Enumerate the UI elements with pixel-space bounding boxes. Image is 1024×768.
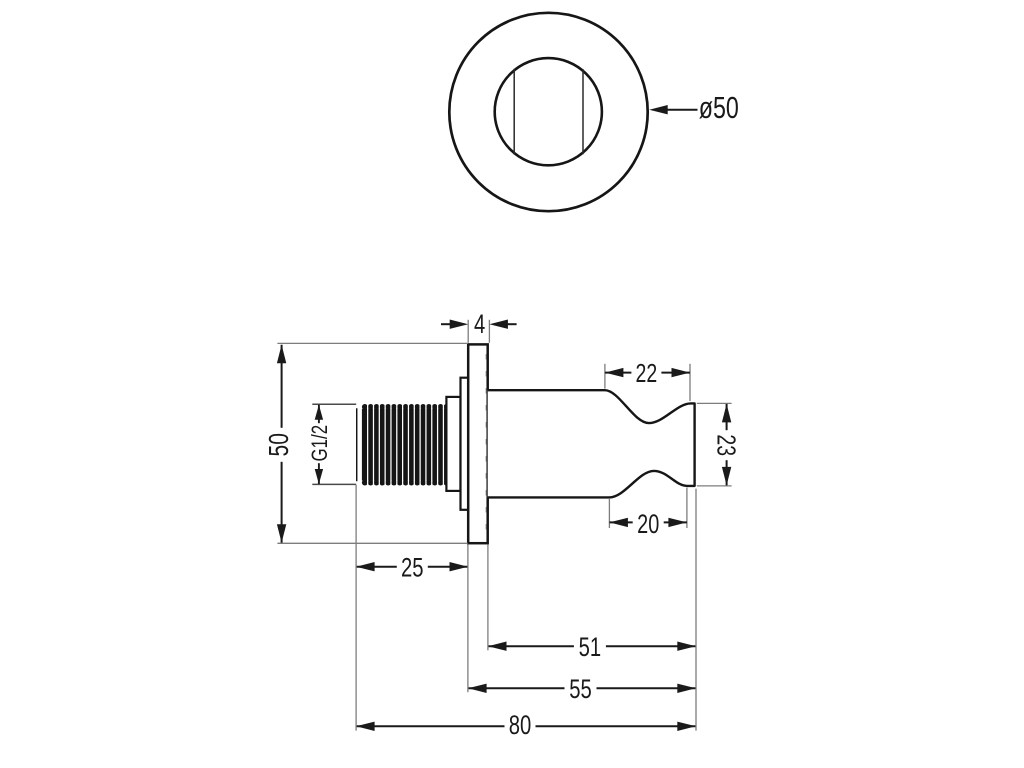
dimension G1/2 (thread size) xyxy=(308,404,356,484)
extension line: flange left face (for 25 & 55) xyxy=(467,545,469,693)
svg-text:20: 20 xyxy=(637,509,659,538)
dimension 25 (thread length) xyxy=(356,553,468,584)
svg-text:51: 51 xyxy=(579,632,602,663)
shoulder (thread runout cylinder) xyxy=(446,397,460,491)
svg-text:22: 22 xyxy=(636,358,658,387)
hidden edge (dashed) inside flange xyxy=(485,354,487,538)
dimension 55 (body + flange length) xyxy=(468,674,696,705)
holder body with concave neck and end cone xyxy=(488,390,695,497)
svg-text:4: 4 xyxy=(474,309,485,340)
extension line: thread start (left, for 25 & 80) xyxy=(355,485,357,731)
dimension 80 (overall length) xyxy=(356,710,696,741)
dimension 22 (cone top width) xyxy=(605,358,690,401)
svg-text:G1/2: G1/2 xyxy=(308,425,333,462)
extension line: flange right face (for 51) xyxy=(487,545,489,651)
svg-text:80: 80 xyxy=(509,710,532,741)
extension line: part right end (for 51/55/80) xyxy=(695,489,697,731)
dimension 20 (cone bottom width) xyxy=(609,488,687,539)
front view: right silhouette line of holder xyxy=(582,69,584,154)
front view: outer ring (escutcheon edge) xyxy=(449,13,647,211)
leader line for diameter 50 xyxy=(660,109,698,111)
svg-text:50: 50 xyxy=(264,433,295,456)
front view: inner circle (body) xyxy=(495,58,602,165)
svg-text:ø50: ø50 xyxy=(699,90,739,125)
front view: left silhouette line of holder xyxy=(513,69,515,155)
svg-text:23: 23 xyxy=(712,434,741,456)
dimension 4 (flange thickness) xyxy=(441,309,517,342)
dimension 51 (body length) xyxy=(488,632,696,663)
svg-text:55: 55 xyxy=(569,674,592,705)
back plate / gasket disc xyxy=(461,378,469,510)
wall flange (escutcheon, side view) xyxy=(468,344,488,543)
dimension 23 (end diameter) xyxy=(697,403,741,486)
dimension 50 (flange diameter) xyxy=(264,343,468,543)
svg-text:25: 25 xyxy=(401,553,424,584)
